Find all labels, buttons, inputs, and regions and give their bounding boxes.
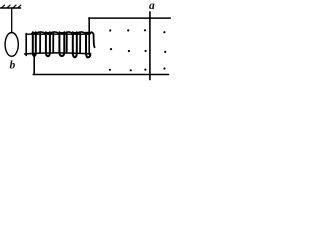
coil left end bbox=[25, 34, 27, 56]
coil right lead up to top rail bbox=[88, 18, 90, 54]
svg-text:b: b bbox=[10, 60, 16, 72]
coil turn 3 bbox=[59, 32, 64, 56]
wire bottom rail bbox=[33, 74, 168, 76]
rod a bbox=[149, 12, 151, 80]
pendulum string bbox=[11, 8, 13, 33]
ceiling support bbox=[1, 7, 21, 9]
coil top line bbox=[26, 33, 89, 35]
wire top rail bbox=[89, 17, 171, 19]
ball b bbox=[5, 33, 18, 57]
coil bottom-left down lead bbox=[33, 53, 35, 74]
field dots (B out of page) bbox=[109, 29, 166, 71]
coil bottom line bbox=[25, 53, 90, 54]
coil turn 2 bbox=[46, 32, 50, 56]
svg-text:a: a bbox=[149, 0, 155, 12]
coil turn 1 bbox=[33, 32, 36, 56]
coil turn 4 bbox=[73, 32, 77, 57]
coil turn 5 bbox=[86, 33, 90, 58]
ceiling hatch ticks bbox=[2, 5, 21, 8]
